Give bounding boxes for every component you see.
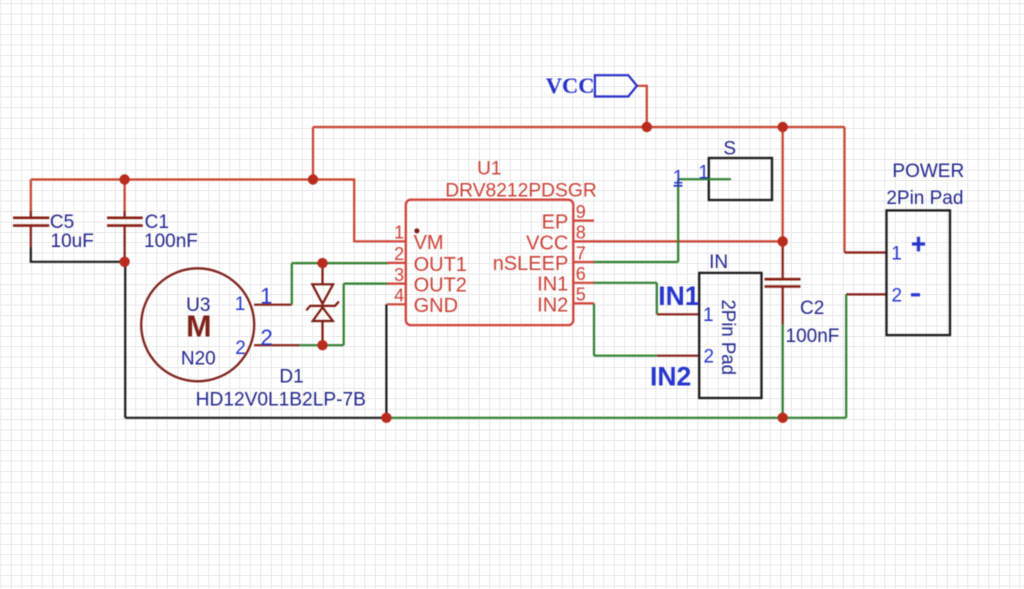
U1 pin 3 [387,283,406,285]
svg-text:6: 6 [576,264,586,284]
wire nSLEEP riser [677,179,679,262]
wire OUT2 riser [343,284,345,346]
svg-text:IN1: IN1 [537,274,568,296]
wire POWER pin2 drop [845,294,847,417]
svg-text:2Pin Pad: 2Pin Pad [717,299,738,375]
U1 pin 9 [573,220,594,222]
U1 pin 8 [573,240,594,242]
wire U1 GND drop [385,304,387,418]
U1 pin1 marker dot [414,228,419,233]
svg-text:2: 2 [235,338,246,359]
op-amp U1 body [406,200,574,325]
connector POWER pin 1 [845,251,887,253]
svg-text:VCC: VCC [546,73,595,98]
wire C5 top [30,180,32,213]
connector POWER body [887,210,951,335]
svg-text:POWER: POWER [892,161,964,182]
U1 pin 6 [573,282,594,284]
U1 pin 4 [387,303,406,305]
svg-text:M: M [186,309,211,343]
svg-text:2: 2 [260,325,272,350]
connector IN pin 1 [657,313,699,315]
svg-text:1: 1 [394,223,404,243]
wire pin8 VCC to C2 node [592,240,783,242]
wire VCC flag drop [637,86,647,127]
svg-text:1: 1 [260,283,272,308]
svg-text:1: 1 [891,244,902,265]
VCC net flag [595,75,637,96]
wire left bus [31,178,313,180]
U1 pin 5 [573,302,594,304]
junction node D1 bottom [317,340,327,350]
switch S body [709,158,772,200]
wire vertical to left bus [312,127,314,180]
U1 pin 7 [573,261,594,263]
wire C5 bottom to C1 node [31,248,125,262]
wire left GND drop [124,262,126,418]
net label 1 at S [673,167,684,188]
svg-text:9: 9 [576,202,586,222]
svg-text:1: 1 [698,163,709,184]
wire C1 top [123,180,125,213]
svg-text:7: 7 [576,243,586,263]
capacitor C1 [107,211,143,262]
wire POWER feed [843,127,845,253]
wire GND bus black [125,417,386,419]
junction node C2 top [778,236,788,246]
U1 pin 1 [387,240,406,242]
wire VM feed [313,180,389,242]
junction node D1 top [317,258,327,268]
svg-text:D1: D1 [279,367,303,388]
connector POWER pin 2 [846,293,886,295]
POWER minus sign [911,293,920,296]
junction node right top [778,122,788,132]
svg-text:IN2: IN2 [537,294,568,316]
connector IN body [699,273,761,398]
wire IN1 row [592,282,657,284]
U1 pin 2 [387,262,406,264]
svg-text:VCC: VCC [526,232,568,254]
svg-text:1: 1 [703,305,714,326]
junction node C1 top [119,174,129,184]
junction node C2 bottom [778,413,788,423]
capacitor C2 [765,241,801,324]
junction node GND bus [381,413,391,423]
svg-text:2: 2 [892,285,903,306]
wire IN1 drop [656,283,658,315]
svg-text:GND: GND [414,295,458,317]
svg-text:OUT2: OUT2 [414,275,467,297]
svg-text:IN1: IN1 [658,281,699,311]
svg-text:OUT1: OUT1 [414,254,467,276]
wire motor pin1 riser [291,263,293,305]
wire GND bus green [386,417,846,419]
svg-text:2Pin Pad: 2Pin Pad [886,188,963,209]
junction node left bus [308,174,318,184]
svg-text:VM: VM [414,232,444,254]
motor U3 body [141,268,254,381]
svg-text:10uF: 10uF [51,231,94,252]
junction node VCC drop [642,122,652,132]
svg-text:nSLEEP: nSLEEP [493,253,569,275]
POWER plus sign [912,237,925,252]
svg-text:100nF: 100nF [144,231,198,252]
svg-text:C5: C5 [50,212,74,233]
svg-text:C2: C2 [800,298,824,319]
wire motor pin2 row [299,344,344,346]
wire IN2 drop [593,303,595,355]
wire OUT1 row [292,262,389,264]
diode D1 [306,263,339,345]
wire nSLEEP row [592,261,678,263]
svg-text:3: 3 [394,265,404,285]
svg-text:2: 2 [394,244,404,264]
svg-text:5: 5 [576,285,586,305]
wire into S pin [678,178,731,180]
wire right vertical C2 node [782,127,784,241]
motor U3 pin 1 [254,304,292,306]
svg-text:8: 8 [576,223,586,243]
junction node C1 bottom [119,257,129,267]
svg-text:U1: U1 [477,158,501,179]
svg-text:N20: N20 [181,349,216,370]
svg-text:IN: IN [709,252,728,273]
motor U3 pin 2 [254,344,299,346]
wire OUT2 row [344,283,389,285]
svg-text:1: 1 [235,294,246,315]
svg-text:HD12V0L1B2LP-7B: HD12V0L1B2LP-7B [196,390,366,411]
connector IN pin 2 [657,355,699,357]
svg-text:DRV8212PDSGR: DRV8212PDSGR [445,180,597,201]
svg-text:4: 4 [394,286,404,306]
capacitor C5 [13,211,49,248]
wire IN2 row [594,355,657,357]
svg-text:S: S [723,138,736,159]
svg-text:EP: EP [542,212,569,234]
wire C2 bottom [782,324,784,417]
svg-text:C1: C1 [145,212,169,233]
svg-text:100nF: 100nF [786,326,840,347]
svg-text:2: 2 [704,347,715,368]
wire top VCC bus [313,126,845,128]
svg-text:IN2: IN2 [650,362,691,392]
